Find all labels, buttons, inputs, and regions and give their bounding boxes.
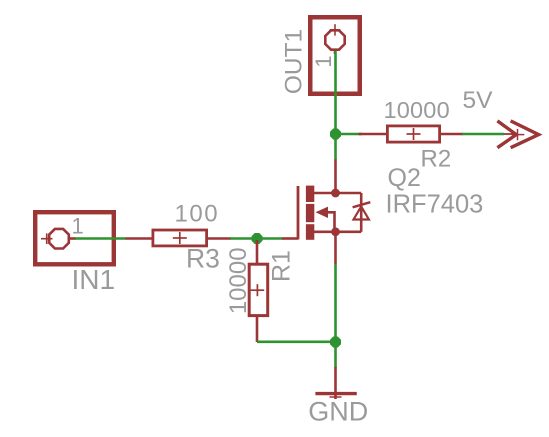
wire R2 to 5V arrow bbox=[462, 133, 504, 136]
svg-text:100: 100 bbox=[175, 201, 220, 228]
wire J2 to R1 bbox=[256, 239, 259, 243]
connector IN1 frame bbox=[35, 212, 114, 264]
svg-text:IN1: IN1 bbox=[72, 264, 116, 295]
pin R2 left bbox=[359, 133, 387, 136]
resistor R1 body bbox=[249, 264, 268, 315]
svg-text:IRF7403: IRF7403 bbox=[386, 191, 484, 219]
connector OUT1 pad bbox=[325, 30, 344, 49]
junction dot drain bbox=[331, 189, 340, 198]
svg-text:5V: 5V bbox=[463, 87, 494, 114]
supply arrow chevron 1 bbox=[497, 121, 516, 148]
svg-text:OUT1: OUT1 bbox=[281, 29, 308, 94]
gnd stem bbox=[334, 367, 337, 399]
junction dot source bbox=[331, 227, 340, 236]
pin R3 right bbox=[208, 237, 232, 240]
transistor Q2 source link bbox=[313, 231, 361, 234]
junction J2 bbox=[252, 233, 263, 244]
svg-text:GND: GND bbox=[308, 396, 368, 426]
svg-text:R1: R1 bbox=[268, 250, 296, 282]
transistor Q2 channel bar bottom bbox=[306, 224, 314, 240]
pin Q2 source bbox=[334, 232, 337, 265]
transistor Q2 bulk link bbox=[327, 212, 335, 232]
body diode cathode bbox=[353, 202, 371, 207]
transistor Q2 bulk arrow bbox=[316, 207, 329, 218]
svg-text:10000: 10000 bbox=[225, 247, 252, 314]
svg-text:10000: 10000 bbox=[384, 97, 450, 123]
connector OUT1 frame bbox=[310, 17, 360, 94]
cross R3 bbox=[173, 232, 187, 244]
wire J1 to R2 bbox=[336, 133, 363, 136]
resistor R2 body bbox=[387, 126, 439, 142]
cross R1 bbox=[251, 284, 265, 296]
wire J2 to gate bbox=[257, 237, 283, 240]
pin cross IN1 bbox=[41, 233, 53, 244]
svg-text:1: 1 bbox=[72, 214, 84, 239]
svg-text:1: 1 bbox=[311, 55, 336, 67]
pin Q2 gate bbox=[282, 237, 298, 240]
wire R1 to junction J3 bbox=[257, 340, 336, 343]
transistor Q2 channel bar top bbox=[306, 186, 314, 202]
wire J1 to drain pin bbox=[334, 134, 337, 160]
svg-text:R2: R2 bbox=[421, 146, 452, 173]
pin stub OUT1 pad bbox=[334, 50, 337, 55]
pin R1 top bbox=[256, 240, 259, 264]
svg-text:R3: R3 bbox=[186, 244, 220, 274]
transistor Q2 channel bar middle bbox=[306, 204, 314, 222]
junction J1 bbox=[330, 129, 341, 140]
pin R3 left bbox=[126, 237, 153, 240]
cross R2 bbox=[407, 128, 421, 140]
wire IN1 to R3 bbox=[75, 237, 126, 240]
svg-text:Q2: Q2 bbox=[388, 164, 421, 192]
pin R2 right bbox=[441, 133, 463, 136]
wire OUT1 pad to junction J1 bbox=[334, 51, 337, 134]
body diode bar bbox=[360, 193, 363, 232]
pin IN1 pad stub bbox=[69, 237, 76, 240]
supply 5V stub bbox=[504, 133, 518, 135]
transistor Q2 gate bar bbox=[297, 186, 300, 240]
pin cross OUT1 bbox=[330, 24, 341, 35]
supply arrow chevron 2 bbox=[511, 121, 539, 148]
wire source to GND bbox=[334, 264, 337, 368]
body diode triangle bbox=[354, 207, 369, 220]
pin R1 bottom bbox=[256, 316, 259, 342]
pin Q2 drain bbox=[334, 160, 337, 194]
resistor R3 body bbox=[153, 230, 207, 246]
pin cross 5V bbox=[512, 129, 525, 140]
junction J3 bbox=[330, 337, 341, 348]
connector IN1 pad bbox=[49, 229, 69, 249]
wire R3 to junction J2 bbox=[230, 237, 257, 240]
pin cross GND bbox=[330, 396, 342, 398]
ground bbox=[315, 392, 356, 395]
transistor Q2 drain link bbox=[313, 192, 361, 195]
